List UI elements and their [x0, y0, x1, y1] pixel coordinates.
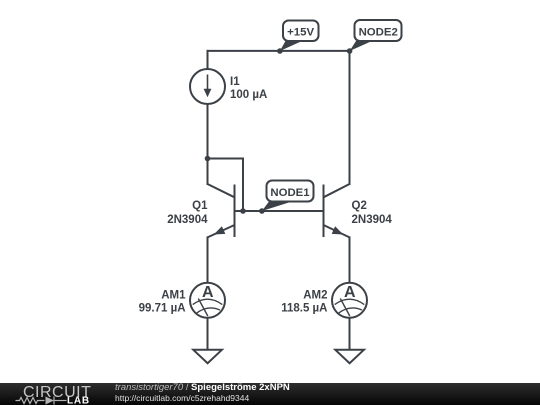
- svg-text:Q1: Q1: [192, 200, 208, 212]
- svg-text:NODE2: NODE2: [359, 27, 398, 39]
- transistor Q2: [324, 184, 350, 237]
- wire base bus: [235, 210, 324, 212]
- svg-text:2N3904: 2N3904: [352, 214, 393, 226]
- svg-text:LAB: LAB: [67, 396, 90, 405]
- flag NODE1: [259, 181, 313, 214]
- wire top rail: [208, 50, 350, 52]
- wire feedback horizontal: [208, 158, 244, 160]
- wire Q1 emitter down to AM1: [207, 237, 209, 283]
- ground 1: [193, 350, 222, 363]
- wire AM2 to ground: [349, 318, 351, 350]
- svg-text:+15V: +15V: [287, 27, 314, 39]
- svg-text:100 µA: 100 µA: [230, 89, 267, 101]
- svg-text:AM2: AM2: [303, 290, 327, 302]
- ammeter AM2: [332, 283, 367, 318]
- label Q2: [352, 200, 393, 226]
- label AM2 value: [281, 290, 327, 315]
- node A junction dot: [205, 156, 211, 162]
- svg-text:NODE1: NODE1: [270, 187, 310, 199]
- svg-text:I1: I1: [230, 76, 240, 88]
- wire Q2 emitter down to AM2: [349, 237, 351, 283]
- flag +15V: [277, 21, 318, 54]
- svg-text:118.5 µA: 118.5 µA: [281, 303, 327, 315]
- transistor Q1: [208, 184, 235, 237]
- current source I1: [190, 69, 225, 104]
- node B junction dot: [240, 208, 246, 214]
- wire left rail to I1 top: [207, 51, 209, 69]
- flag NODE2: [347, 20, 402, 54]
- svg-text:A: A: [202, 284, 214, 301]
- wire right rail to Q2 collector: [349, 51, 351, 184]
- wire AM1 to ground: [207, 318, 209, 350]
- wire I1 bottom to node A: [207, 104, 209, 159]
- ammeter AM1: [190, 283, 225, 318]
- svg-text:99.71 µA: 99.71 µA: [139, 303, 186, 315]
- svg-text:AM1: AM1: [161, 290, 186, 302]
- footer title text: [115, 383, 290, 393]
- wire node A to Q1 collector: [207, 159, 209, 185]
- ground 2: [335, 350, 364, 363]
- CircuitLab logo: [0, 383, 110, 405]
- svg-text:2N3904: 2N3904: [167, 214, 208, 226]
- footer bar: [0, 383, 540, 405]
- svg-text:Q2: Q2: [352, 200, 367, 212]
- wire feedback vertical: [242, 159, 244, 212]
- label I1 value: [230, 76, 267, 101]
- label Q1: [167, 200, 208, 226]
- label AM1 value: [139, 290, 187, 315]
- svg-text:A: A: [344, 284, 356, 301]
